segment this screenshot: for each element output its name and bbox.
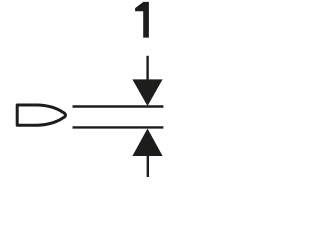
profile outline	[17, 105, 65, 125]
wire bottom extension line	[73, 126, 164, 128]
wire top extension line	[73, 105, 164, 107]
arrowhead down	[132, 79, 162, 106]
arrowhead up	[132, 129, 162, 157]
wire dimension leader bottom	[147, 155, 149, 177]
dimension label 1	[135, 2, 149, 38]
wire dimension leader top	[146, 56, 148, 81]
